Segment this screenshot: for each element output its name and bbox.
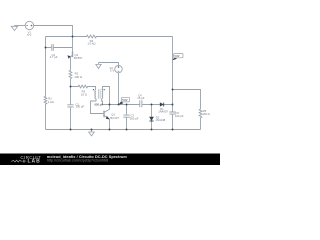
- wire capacitor C3 branch: [126, 105, 128, 130]
- svg-text:500 µF: 500 µF: [130, 117, 139, 121]
- wire V2 to output node: [118, 73, 120, 105]
- net flag F2 arrow: [172, 57, 177, 60]
- capacitor C4 plates: [140, 100, 142, 107]
- bottom banner: [0, 154, 220, 166]
- net flag F2 box: [174, 53, 183, 57]
- transistor Q1 base bar: [103, 111, 105, 118]
- transformer T1 phase dot right: [104, 89, 105, 90]
- capacitor C1 plates: [67, 105, 73, 107]
- svg-text:100 µF: 100 µF: [76, 105, 85, 109]
- wire zener D2 branch: [151, 105, 153, 130]
- svg-text:http://circuitlab.com/c/pd3p7n: http://circuitlab.com/c/pd3p7n2smhb8: [47, 159, 108, 163]
- capacitor C5 plates: [169, 112, 175, 114]
- wire V1 to corner and down to Q2: [34, 26, 73, 52]
- wire top rail with resistor R4: [46, 35, 173, 38]
- zener diode D2: [149, 117, 153, 121]
- wire to resistor R5: [173, 90, 201, 110]
- svg-text:100 Ω: 100 Ω: [202, 112, 210, 116]
- transformer T1 core: [99, 89, 101, 98]
- logo resistor zigzag: [11, 160, 22, 162]
- svg-text:4.7 µF: 4.7 µF: [50, 55, 58, 59]
- transformer T1 left winding: [95, 89, 96, 98]
- resistor R2: [69, 70, 72, 78]
- wire C1 to bottom rail: [70, 107, 72, 130]
- svg-text:5 V: 5 V: [27, 33, 31, 37]
- svg-text:10 Ω: 10 Ω: [81, 93, 87, 97]
- wire capacitor C2 branch: [46, 47, 73, 49]
- transistor Q2 emitter: [70, 55, 73, 70]
- wire R2 to C1: [70, 79, 72, 105]
- svg-text:100 Ω: 100 Ω: [74, 75, 82, 79]
- svg-text:1N4007: 1N4007: [158, 110, 168, 114]
- wire G1 to V1: [15, 25, 26, 27]
- net flag F1 arrow: [118, 101, 123, 105]
- transformer T1 right winding: [102, 89, 103, 98]
- svg-text:BC337: BC337: [110, 116, 119, 120]
- transistor Q2 base bar: [72, 51, 74, 57]
- wire R5 to rail: [200, 118, 202, 130]
- ground G2: [96, 63, 101, 69]
- transistor Q1 emitter arrow: [106, 116, 110, 119]
- wire output node: [110, 104, 173, 106]
- svg-text:1 kΩ: 1 kΩ: [48, 100, 54, 104]
- wire V2 top to ground: [99, 63, 119, 66]
- svg-text:15 µF: 15 µF: [137, 96, 144, 100]
- ground G3: [89, 130, 95, 136]
- voltage source V1: [25, 21, 33, 29]
- transistor Q1 collector: [104, 105, 110, 113]
- bottom rail: [46, 129, 201, 131]
- net flag F1 box: [121, 97, 129, 102]
- right rail wire: [172, 37, 174, 130]
- svg-text:BC557: BC557: [74, 56, 83, 60]
- transistor Q2 emitter arrow: [67, 55, 70, 59]
- svg-text:5 V: 5 V: [110, 68, 114, 72]
- svg-text:1N4148: 1N4148: [155, 118, 165, 122]
- svg-text:100 µF: 100 µF: [175, 114, 184, 118]
- wire with resistor R3: [71, 85, 96, 89]
- resistor R5: [199, 109, 202, 118]
- transformer T1 phase dot left: [93, 89, 94, 90]
- wire right winding top loop: [102, 87, 110, 105]
- junction dots: [45, 36, 174, 131]
- voltage source V2: [115, 65, 122, 72]
- transistor Q1 emitter: [104, 115, 110, 129]
- capacitor C2 plates: [52, 44, 54, 50]
- wire right winding bottom: [102, 99, 110, 105]
- logo capacitor symbol: [22, 160, 26, 163]
- ground G1: [11, 26, 17, 31]
- wire left winding bottom to Q1 base: [91, 99, 104, 114]
- svg-text:1.0 kΩ: 1.0 kΩ: [87, 41, 95, 45]
- capacitor C3 plates: [123, 115, 129, 117]
- svg-text:600 µH: 600 µH: [95, 103, 104, 107]
- diode D1: [160, 103, 164, 107]
- left rail with resistor R1: [44, 37, 47, 130]
- svg-text:5.0V: 5.0V: [174, 55, 179, 58]
- svg-text:LAB: LAB: [28, 159, 41, 165]
- svg-text:5.0V: 5.0V: [122, 98, 128, 102]
